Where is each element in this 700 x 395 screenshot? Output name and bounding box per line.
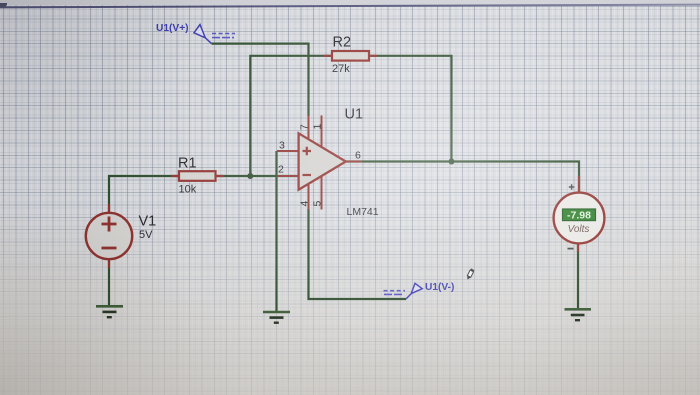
resistor R2 [324, 35, 377, 76]
op-amp U1 [277, 107, 379, 219]
wire: R2 right lead to output node [369, 56, 452, 162]
wire: R2 left lead down to inverting node [250, 56, 332, 176]
svg-text:U1(V+): U1(V+) [156, 23, 189, 34]
ground (pin 3) [263, 312, 290, 323]
window top border line [0, 3, 700, 7]
svg-text:R1: R1 [178, 156, 197, 172]
svg-text:27k: 27k [332, 63, 350, 75]
ground (V1) [96, 306, 123, 317]
svg-text:Volts: Volts [568, 224, 590, 235]
junction node at output/R2 [449, 159, 455, 165]
svg-text:R2: R2 [333, 35, 352, 51]
svg-text:7: 7 [299, 124, 311, 130]
ground (voltmeter) [565, 309, 592, 320]
svg-text:2: 2 [278, 164, 284, 176]
source V1 [86, 204, 156, 268]
resistor R1 [171, 156, 224, 196]
svg-text:6: 6 [355, 150, 361, 162]
wire: output to voltmeter [346, 162, 580, 195]
svg-text:4: 4 [299, 201, 311, 207]
wire: voltmeter bottom to ground [577, 243, 579, 309]
svg-text:3: 3 [279, 140, 285, 152]
svg-text:10k: 10k [179, 184, 197, 196]
wire: R1 to pin 2 [216, 175, 299, 177]
screen corner shadow [0, 3, 7, 7]
pencil cursor icon [466, 268, 475, 280]
wire: pin 4 to U1(V-) flag [309, 209, 407, 299]
svg-text:LM741: LM741 [347, 206, 379, 218]
svg-text:V1: V1 [139, 214, 157, 230]
svg-text:1: 1 [312, 124, 324, 130]
net flag U1(V+) [156, 23, 235, 44]
net flag U1(V-) [384, 282, 455, 299]
wire: U1(V+) flag to pin 7 [212, 44, 309, 116]
svg-text:5: 5 [312, 201, 324, 207]
svg-text:-7.98: -7.98 [567, 210, 591, 222]
wire: pin 3 down to ground [275, 151, 277, 312]
svg-text:5V: 5V [139, 229, 153, 241]
voltmeter probe [554, 176, 605, 252]
wire: V1 to R1 [109, 176, 179, 213]
junction node at R1/R2/pin2 [247, 173, 253, 179]
svg-text:U1: U1 [345, 107, 364, 123]
svg-text:U1(V-): U1(V-) [425, 282, 454, 293]
wire: V1 bottom to ground [108, 259, 110, 306]
